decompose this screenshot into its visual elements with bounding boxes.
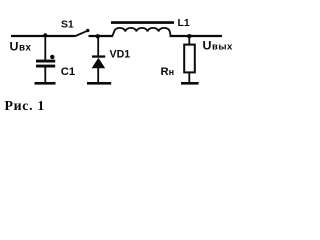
switch S1 blade [76, 29, 90, 36]
label C1 [61, 66, 75, 78]
node: VD1 junction dot on rail [96, 34, 100, 38]
ground bar under VD1 [87, 82, 111, 85]
svg-text:Uвх: Uвх [10, 40, 32, 54]
svg-text:VD1: VD1 [110, 49, 131, 61]
capacitor C1 [36, 60, 55, 83]
svg-text:S1: S1 [61, 20, 74, 31]
label Rn [161, 66, 175, 78]
diode VD1 [92, 37, 106, 82]
resistor Rn [184, 37, 195, 82]
node: C1 junction dot on rail [43, 33, 47, 37]
node: Rn junction dot on rail [187, 34, 191, 38]
label S1 [61, 20, 74, 31]
svg-text:Rн: Rн [161, 66, 175, 78]
ground bar under Rn [181, 82, 199, 85]
caption Ris. 1 [5, 98, 46, 113]
label Uvyx (output voltage) [203, 38, 234, 52]
wire: C1 branch from rail down to capacitor [44, 36, 46, 60]
label VD1 [110, 49, 131, 61]
svg-text:C1: C1 [61, 66, 75, 78]
inductor L1 winding [112, 28, 171, 37]
node: polarity dot at capacitor C1 [50, 55, 54, 59]
inductor L1 core bar [111, 21, 174, 24]
wire: top rail middle segment (switch to inductor) [89, 35, 114, 37]
wire: top rail left segment (input to switch) [11, 35, 76, 37]
svg-text:Uвых: Uвых [203, 38, 234, 52]
label L1 [178, 18, 190, 29]
svg-text:L1: L1 [178, 18, 190, 29]
wire: top rail right segment (inductor to output) [170, 35, 223, 37]
label Uvx (input voltage) [10, 40, 32, 54]
ground bar under C1 [35, 82, 56, 85]
svg-text:Рис. 1: Рис. 1 [5, 98, 46, 113]
